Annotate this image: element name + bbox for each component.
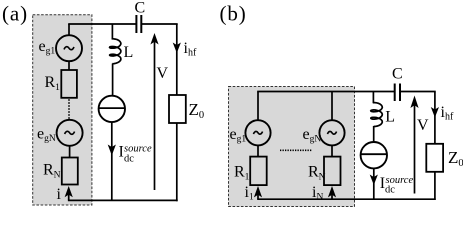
svg-text:ihf: ihf (184, 40, 197, 59)
inductor L (a) (110, 39, 121, 64)
wire: right branch top (a) (176, 24, 178, 95)
svg-text:Z0: Z0 (189, 100, 205, 121)
top rail right segment (b) (400, 91, 436, 93)
svg-text:i: i (57, 186, 62, 203)
resistor RN (b) (324, 157, 341, 186)
svg-text:dc: dc (385, 185, 395, 196)
wire: right branch (b) (434, 92, 436, 144)
wire: source e_g1 top to top rail (a) (68, 24, 70, 36)
voltage source e_g1 (a) (56, 35, 82, 61)
top rail left segment (b) (257, 91, 395, 93)
voltage arrow V (b) (410, 96, 418, 194)
wire: e_gN to RN (a) (69, 146, 71, 158)
wire: Z0 to bottom rail (a) (176, 123, 178, 201)
capacitor C (a) (136, 15, 141, 33)
wire: right branch top (b) (331, 92, 333, 121)
load Z0 (b) (426, 144, 443, 172)
dotted continuation between branches (a) (68, 99, 70, 119)
svg-text:C: C (392, 66, 403, 83)
svg-text:V: V (157, 65, 169, 82)
wire: Z0 to bottom rail (b) (434, 172, 436, 200)
voltage arrow V (a) (150, 33, 158, 190)
wire: e_g1 to R1 (a) (68, 61, 70, 70)
wire: e_g1 to R1 (b) (257, 145, 259, 157)
current arrow i_hf (a) (173, 43, 181, 54)
bottom rail (b) (257, 198, 436, 200)
dashed source box (a) (33, 15, 92, 205)
voltage source e_gN (b) (319, 120, 344, 145)
dashed source box (b) (229, 87, 355, 207)
wire: top rail to inductor (b) (372, 92, 374, 104)
svg-text:(b): (b) (220, 2, 247, 26)
wire: inductor to current source (a) (112, 64, 114, 97)
load Z0 (a) (169, 95, 186, 123)
current arrow i_1 (b) (254, 186, 262, 199)
wire with arrow Idc (a) (108, 122, 116, 200)
wire: top rail right segment (a) (141, 23, 178, 25)
current arrow i_N (b) (328, 186, 336, 199)
dc current source (a) (99, 96, 125, 122)
voltage source e_gN (a) (57, 120, 83, 146)
dc current source (b) (361, 142, 387, 168)
wire with arrow Idc (b) (370, 168, 378, 199)
capacitor C (b) (395, 84, 400, 102)
svg-text:V: V (417, 117, 429, 134)
svg-text:C: C (135, 0, 146, 17)
svg-text:L: L (385, 109, 395, 126)
wire: top rail left segment (a) (68, 23, 136, 25)
svg-text:Z0: Z0 (448, 148, 463, 169)
wire: e_gN to RN (b) (331, 145, 333, 157)
wire with current arrow i (a) (65, 186, 73, 200)
bottom rail (a) (68, 199, 178, 201)
resistor R1 (a) (61, 70, 77, 98)
svg-text:ihf: ihf (441, 104, 454, 123)
resistor RN (a) (62, 158, 78, 185)
wire: left branch top (b) (257, 92, 259, 121)
current arrow i_hf (b) (431, 107, 439, 118)
svg-text:L: L (124, 44, 134, 61)
wire: top rail to inductor (a) (111, 24, 113, 40)
wire: inductor to current source (b) (373, 126, 375, 143)
svg-text:(a): (a) (2, 2, 28, 26)
inductor L (b) (371, 103, 383, 127)
svg-text:dc: dc (124, 154, 134, 165)
dotted continuation between branches (b) (280, 149, 312, 151)
voltage source e_g1 (b) (245, 120, 270, 145)
resistor R1 (b) (250, 157, 267, 186)
